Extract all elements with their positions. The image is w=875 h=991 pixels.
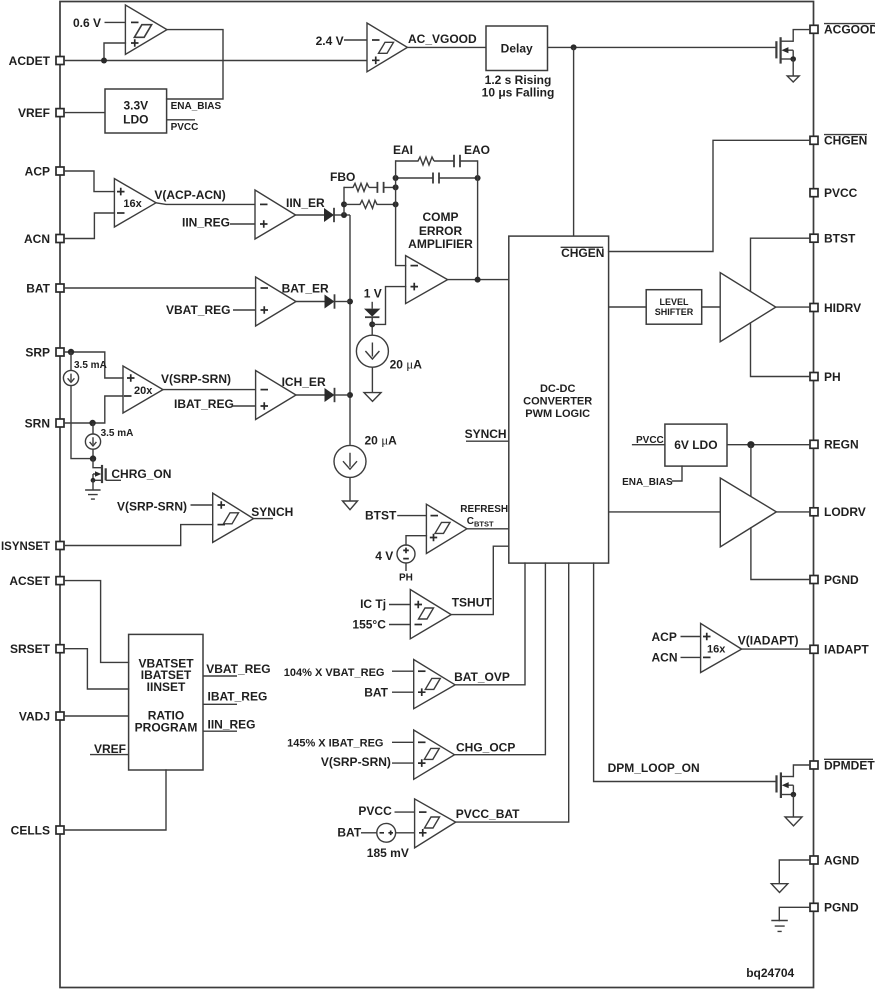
svg-text:IIN_REG: IIN_REG <box>182 215 230 229</box>
junction feedback row2 <box>341 201 347 207</box>
comparator U1 (0.6V ACDET comparator) <box>125 5 167 54</box>
pin LODRV <box>810 508 818 516</box>
resistor R2 (FBO lower) <box>344 200 396 208</box>
wire diode D3 to summing node <box>335 394 351 396</box>
wire I4 to charge switch node <box>92 449 94 458</box>
wire I1 to ground <box>371 367 373 392</box>
svg-text:HIDRV: HIDRV <box>824 301 861 315</box>
svg-text:ACDET: ACDET <box>9 54 51 68</box>
wire PVCC stub to 6V LDO <box>632 444 665 446</box>
svg-text:V(SRP-SRN): V(SRP-SRN) <box>117 500 187 514</box>
wire BAT to offset source <box>361 832 377 834</box>
junction REGN node <box>747 441 754 448</box>
pin PVCC <box>810 189 818 197</box>
wire IBAT_REG stub <box>203 703 237 705</box>
svg-text:BAT: BAT <box>364 686 388 700</box>
pin PGND (bottom) <box>810 903 818 911</box>
wire PVCC to PVCC_BAT minus <box>395 811 415 813</box>
svg-text:REFRESH: REFRESH <box>460 504 508 515</box>
svg-text:LODRV: LODRV <box>824 505 866 519</box>
svg-text:PGND: PGND <box>824 901 859 915</box>
wire 2.4V to U2 minus input <box>344 39 367 41</box>
wire Q3 source to ground <box>792 795 794 817</box>
svg-text:ACN: ACN <box>652 651 678 665</box>
block Delay <box>486 26 548 71</box>
svg-text:BTST: BTST <box>365 508 397 522</box>
wire Q2 source to ground <box>92 480 94 490</box>
svg-text:3.3V: 3.3V <box>123 98 148 112</box>
svg-text:IINSET: IINSET <box>147 680 186 694</box>
junction EAO output node <box>475 277 481 283</box>
svg-text:20 μA: 20 μA <box>365 432 398 447</box>
op-amp U5 (16x IADAPT) <box>701 623 742 672</box>
wire SYNCH output stub <box>254 518 273 520</box>
comparator CHG_OCP <box>414 730 455 779</box>
svg-text:PH: PH <box>399 573 413 584</box>
wire I2 to ground <box>349 477 351 501</box>
svg-text:V(IADAPT): V(IADAPT) <box>738 634 799 648</box>
current source I2 (20 uA) <box>334 445 366 477</box>
svg-text:104% X VBAT_REG: 104% X VBAT_REG <box>284 667 385 679</box>
wire I3 to charge switch node <box>71 386 93 459</box>
svg-text:IADAPT: IADAPT <box>824 643 869 657</box>
wire VADJ to ratio block <box>64 715 129 717</box>
svg-text:SRSET: SRSET <box>10 642 51 656</box>
svg-text:SRP: SRP <box>25 345 50 359</box>
wire SRSET to ratio block <box>64 649 129 689</box>
junction summing node (IIN) <box>341 212 347 218</box>
wire ICH_ER output to diode <box>296 394 325 396</box>
block DC-DC CONVERTER PWM LOGIC <box>509 236 609 563</box>
wire VBAT_REG to BAT_ER plus <box>233 309 256 311</box>
wire SRN branch <box>64 396 123 423</box>
ground (AGND) <box>771 884 788 893</box>
wire IC Tj to TSHUT plus <box>389 604 410 606</box>
pin BTST <box>810 234 818 242</box>
svg-text:ACSET: ACSET <box>9 574 50 588</box>
svg-text:BAT_ER: BAT_ER <box>282 281 329 295</box>
wire PVCC_BAT output to PWM logic <box>456 563 569 822</box>
svg-text:SHIFTER: SHIFTER <box>655 307 694 317</box>
op-amp comp error amplifier <box>406 256 448 304</box>
voltage source 4V <box>397 545 415 563</box>
pin CHGEN (active low) <box>810 136 818 144</box>
svg-text:EAO: EAO <box>464 143 490 157</box>
wire ISYNSET to SYNCH minus <box>64 525 213 546</box>
wire CHG_OCP output to PWM logic <box>455 563 546 755</box>
wire main summing vertical <box>349 215 351 445</box>
wire driver bottom to PH pin <box>751 323 811 377</box>
wire IBAT_REG to ICH_ER plus <box>232 405 256 407</box>
svg-text:3.5 mA: 3.5 mA <box>74 360 107 371</box>
junction clamp node <box>369 321 375 327</box>
wire V(SRP-SRN) to SYNCH plus <box>191 504 213 506</box>
wire DPM_LOOP_ON from PWM logic to Q3 gate <box>594 563 777 781</box>
wire driver bottom to PGND pin <box>751 528 810 580</box>
svg-text:REGN: REGN <box>824 438 859 452</box>
wire IIN_REG to IIN_ER plus <box>230 223 255 225</box>
pin PGND (driver) <box>810 576 818 584</box>
pin CELLS <box>56 826 64 834</box>
svg-text:PVCC_BAT: PVCC_BAT <box>456 807 520 821</box>
comparator BAT_OVP <box>414 660 455 709</box>
pin SRP <box>56 348 64 356</box>
svg-text:V(SRP-SRN): V(SRP-SRN) <box>161 372 231 386</box>
wire VBAT_REG stub <box>203 675 237 677</box>
wire error amp output to PWM logic <box>448 279 509 281</box>
junction delay output node <box>571 44 577 50</box>
wire U4 output to ICH_ER minus <box>163 389 256 391</box>
wire BAT to BAT_OVP plus <box>392 691 414 693</box>
svg-text:PVCC: PVCC <box>824 186 858 200</box>
svg-text:ACP: ACP <box>652 630 677 644</box>
wire CHGEN enable vertical to PWM logic <box>573 47 575 236</box>
svg-text:6V LDO: 6V LDO <box>674 438 717 452</box>
svg-text:16x: 16x <box>123 198 142 210</box>
block 6V LDO <box>665 424 727 466</box>
svg-text:AC_VGOOD: AC_VGOOD <box>408 32 477 46</box>
svg-text:IIN_ER: IIN_ER <box>286 196 325 210</box>
wire BAT to BAT_ER minus <box>64 287 256 289</box>
svg-text:DC-DC: DC-DC <box>540 383 575 395</box>
op-amp BAT_ER <box>256 277 296 326</box>
svg-text:BAT: BAT <box>337 826 361 840</box>
wire ACSET to ratio block <box>64 581 129 663</box>
svg-text:CHRG_ON: CHRG_ON <box>111 467 171 481</box>
wire PWM to level shifter <box>609 306 647 308</box>
wire EAO vertical to error amp output <box>477 161 479 280</box>
wire V(SRP-SRN) to CHG_OCP plus <box>392 762 414 764</box>
wire BAT_OVP output to PWM logic <box>455 563 525 685</box>
svg-text:1 V: 1 V <box>364 286 382 300</box>
svg-text:V(SRP-SRN): V(SRP-SRN) <box>321 755 391 769</box>
svg-text:PH: PH <box>824 370 841 384</box>
pin PH <box>810 373 818 381</box>
svg-text:ENA_BIAS: ENA_BIAS <box>622 477 673 488</box>
transistor Q2 (CHRG_ON switch) <box>93 459 102 468</box>
block 3.3V LDO <box>105 89 167 133</box>
svg-text:ISYNSET: ISYNSET <box>1 539 51 553</box>
wire PWM to low driver input <box>609 511 721 513</box>
wire clamp node to error amp plus <box>372 287 405 325</box>
svg-text:CHG_OCP: CHG_OCP <box>456 740 515 754</box>
block LEVEL SHIFTER <box>646 290 702 325</box>
junction C2 left <box>393 175 399 181</box>
svg-text:TSHUT: TSHUT <box>452 595 493 609</box>
wire ACDET net <box>64 60 367 62</box>
svg-text:3.5 mA: 3.5 mA <box>101 428 134 439</box>
wire Q1 source to ground <box>792 59 794 76</box>
svg-text:ACP: ACP <box>25 164 50 178</box>
wire U2 output to Delay <box>407 46 486 48</box>
wire EAI vertical to error amp minus <box>396 161 406 266</box>
svg-text:IBAT_REG: IBAT_REG <box>174 397 234 411</box>
pin ISYNSET <box>56 542 64 550</box>
svg-text:145% X IBAT_REG: 145% X IBAT_REG <box>287 737 383 749</box>
wire 4V source to refresh plus <box>406 536 426 545</box>
svg-text:LEVEL: LEVEL <box>659 297 689 307</box>
wire AGND pin to ground <box>779 860 810 883</box>
svg-text:ICH_ER: ICH_ER <box>282 375 326 389</box>
diode D1 (IIN_ER) <box>324 208 334 222</box>
svg-text:VBAT_REG: VBAT_REG <box>166 303 230 317</box>
pin ACP <box>56 167 64 175</box>
wire ACN to minus input <box>681 656 701 658</box>
wire ENA_BIAS stub to 6V LDO <box>672 466 682 481</box>
capacitor C1 (FBO upper) <box>369 186 396 188</box>
pin ACDET <box>56 57 64 65</box>
svg-text:10 μs Falling: 10 μs Falling <box>482 85 555 99</box>
wire ACN to U3 minus input <box>64 213 114 239</box>
junction charge switch node <box>90 455 96 461</box>
wire SRN to current source I4 <box>92 423 94 434</box>
svg-text:16x: 16x <box>707 644 726 656</box>
ground (I2) <box>343 501 358 510</box>
svg-text:IIN_REG: IIN_REG <box>208 717 256 731</box>
junction ICH_ER node <box>347 392 353 398</box>
svg-text:VADJ: VADJ <box>19 709 50 723</box>
pin SRN <box>56 419 64 427</box>
capacitor C2 (inner feedback) <box>396 177 478 179</box>
comparator TSHUT <box>410 590 451 639</box>
comparator refresh CBTST <box>426 504 467 553</box>
op-amp ICH_ER <box>256 371 296 420</box>
svg-text:SYNCH: SYNCH <box>251 505 293 519</box>
svg-text:CONVERTER: CONVERTER <box>523 395 592 407</box>
svg-text:SRN: SRN <box>25 416 50 430</box>
junction C2 right <box>475 175 481 181</box>
svg-text:20x: 20x <box>134 385 153 397</box>
svg-text:IC Tj: IC Tj <box>360 597 386 611</box>
op-amp U3 (16x ACP-ACN amplifier) <box>114 179 156 227</box>
op-amp U4 (20x SRP-SRN amplifier) <box>123 366 163 413</box>
wire ACP to U3 plus input <box>64 171 114 192</box>
wire VREF to LDO <box>64 112 105 114</box>
transistor Q1 (ACGOOD open-drain) <box>775 41 777 58</box>
pin DPMDET (active low) <box>810 761 818 769</box>
amplifier low-side driver <box>720 478 776 547</box>
svg-text:BAT_OVP: BAT_OVP <box>454 670 510 684</box>
wire 4V source to PH stub <box>405 563 407 571</box>
svg-text:CHGEN: CHGEN <box>824 134 867 148</box>
comparator U2 (2.4V AC_VGOOD) <box>367 23 407 72</box>
wire offset source to PVCC_BAT plus <box>396 832 415 834</box>
svg-text:Delay: Delay <box>501 42 533 56</box>
svg-text:4 V: 4 V <box>375 549 393 563</box>
diode D2 (BAT_ER) <box>325 295 335 309</box>
svg-text:VREF: VREF <box>18 106 50 120</box>
wire TSHUT output to PWM logic <box>451 546 509 614</box>
op-amp IIN_ER <box>255 190 296 239</box>
svg-text:VBAT_REG: VBAT_REG <box>206 662 270 676</box>
wire U1 output to ENA_BIAS <box>167 30 223 99</box>
pin IADAPT <box>810 645 818 653</box>
wire PVCC stub of 3.3V LDO <box>167 119 195 121</box>
wire IIN_ER output to diode <box>296 214 324 216</box>
ground (I1) <box>364 393 381 402</box>
svg-text:PVCC: PVCC <box>171 122 199 133</box>
svg-text:C: C <box>467 516 474 527</box>
wire SRP branch <box>64 352 123 378</box>
svg-text:AGND: AGND <box>824 853 860 867</box>
svg-text:SYNCH: SYNCH <box>465 427 507 441</box>
svg-text:EAI: EAI <box>393 143 413 157</box>
wire U3 output to IIN_ER minus <box>156 203 255 205</box>
diode D4 (1V clamp) <box>371 302 373 309</box>
junction EAI node row1 <box>393 184 399 190</box>
amplifier high-side driver <box>720 273 776 342</box>
pin VREF <box>56 109 64 117</box>
svg-text:CELLS: CELLS <box>11 823 50 837</box>
svg-text:155°C: 155°C <box>352 617 386 631</box>
svg-text:FBO: FBO <box>330 170 355 184</box>
wire SRP to current source I3 <box>70 352 72 370</box>
wire BTST to driver top <box>751 238 811 291</box>
svg-text:0.6 V: 0.6 V <box>73 16 101 30</box>
wire PGND pin to earth ground <box>779 907 810 920</box>
pin REGN <box>810 440 818 448</box>
wire BTST to refresh minus <box>397 515 426 517</box>
svg-text:LDO: LDO <box>123 112 148 126</box>
pin ACSET <box>56 577 64 585</box>
ground (Q3 source) <box>785 817 802 826</box>
wire ACDET to U1 plus input <box>104 43 125 61</box>
wire refresh output to PWM logic <box>467 528 509 530</box>
resistor R1 (FBO upper) <box>344 183 369 191</box>
pin ACGOOD (active low) <box>810 25 818 33</box>
svg-text:DPMDET: DPMDET <box>824 758 875 772</box>
svg-text:2.4 V: 2.4 V <box>316 34 344 48</box>
svg-text:BTST: BTST <box>474 520 494 529</box>
svg-text:BTST: BTST <box>824 232 856 246</box>
pin AGND <box>810 856 818 864</box>
pin BAT <box>56 284 64 292</box>
wire IIN_REG stub <box>203 730 237 732</box>
wire CHGEN output to pin <box>609 140 810 251</box>
wire U5 output to IADAPT pin <box>742 648 810 650</box>
svg-text:DPM_LOOP_ON: DPM_LOOP_ON <box>608 761 700 775</box>
ground (PGND earth) <box>771 921 788 932</box>
svg-text:bq24704: bq24704 <box>746 966 794 980</box>
block VBATSET IBATSET IINSET RATIO PROGRAM <box>129 634 203 770</box>
svg-text:COMP: COMP <box>423 210 459 224</box>
wire SYNCH input stub <box>466 440 509 442</box>
wire to BAT_OVP minus <box>392 670 414 672</box>
wire to CHG_OCP minus <box>392 741 414 743</box>
svg-text:PWM LOGIC: PWM LOGIC <box>525 408 590 420</box>
pin ACN <box>56 235 64 243</box>
svg-text:20 μA: 20 μA <box>390 357 423 372</box>
wire 6V LDO output to REGN <box>727 444 810 446</box>
svg-text:ACGOOD: ACGOOD <box>824 23 875 37</box>
transistor Q3 (DPMDET open-drain) <box>775 775 777 792</box>
wire HIDRV output <box>776 306 810 308</box>
svg-text:BAT: BAT <box>26 281 50 295</box>
current source I3 (3.5 mA) <box>63 370 78 385</box>
wire Q2 gate lead <box>106 479 121 481</box>
wire VREF stub to ratio block <box>90 754 129 756</box>
wire CELLS to ratio block <box>64 770 166 830</box>
ground (Q1 source) <box>787 76 799 82</box>
capacitor C3 (EAI-EAO) <box>434 160 478 162</box>
junction SRN node <box>89 420 95 426</box>
svg-text:V(ACP-ACN): V(ACP-ACN) <box>154 188 225 202</box>
svg-text:PVCC: PVCC <box>358 804 392 818</box>
wire diode D2 to summing node <box>335 301 351 303</box>
wire 155C to TSHUT minus <box>389 624 410 626</box>
comparator PVCC_BAT <box>415 799 456 848</box>
pin VADJ <box>56 712 64 720</box>
pin HIDRV <box>810 304 818 312</box>
ground (Q2 earth) <box>85 490 101 499</box>
svg-text:185 mV: 185 mV <box>367 846 409 860</box>
wire level shifter to high driver <box>702 306 721 308</box>
resistor R3 (EAI-EAO) <box>396 157 434 165</box>
current source I4 (3.5 mA) <box>85 434 100 449</box>
junction EAI node row2 <box>393 201 399 207</box>
wire BAT_ER output to diode <box>296 301 325 303</box>
wire REGN to low driver top <box>750 445 752 497</box>
wire 0.6V to U1 minus input <box>105 21 126 23</box>
wire ACP to plus input <box>681 636 701 638</box>
voltage source 185 mV offset <box>377 823 396 842</box>
current source I1 (20 uA) <box>356 335 388 367</box>
svg-text:ERROR: ERROR <box>419 224 463 238</box>
wire diode D1 to summing node <box>334 214 350 216</box>
comparator SYNCH <box>213 493 254 542</box>
pin SRSET <box>56 645 64 653</box>
diode D3 (ICH_ER) <box>325 388 335 402</box>
svg-text:ENA_BIAS: ENA_BIAS <box>171 101 222 112</box>
svg-text:PROGRAM: PROGRAM <box>135 721 198 735</box>
wire Delay output to Q1 gate <box>548 46 777 48</box>
junction ACDET node <box>101 58 107 64</box>
svg-text:AMPLIFIER: AMPLIFIER <box>408 237 473 251</box>
junction BAT_ER node <box>347 299 353 305</box>
svg-text:ACN: ACN <box>24 232 50 246</box>
wire LODRV output <box>776 511 810 513</box>
svg-text:IBAT_REG: IBAT_REG <box>208 690 268 704</box>
junction SRP node <box>68 349 74 355</box>
wire feedback riser <box>343 187 345 215</box>
svg-text:PGND: PGND <box>824 573 859 587</box>
